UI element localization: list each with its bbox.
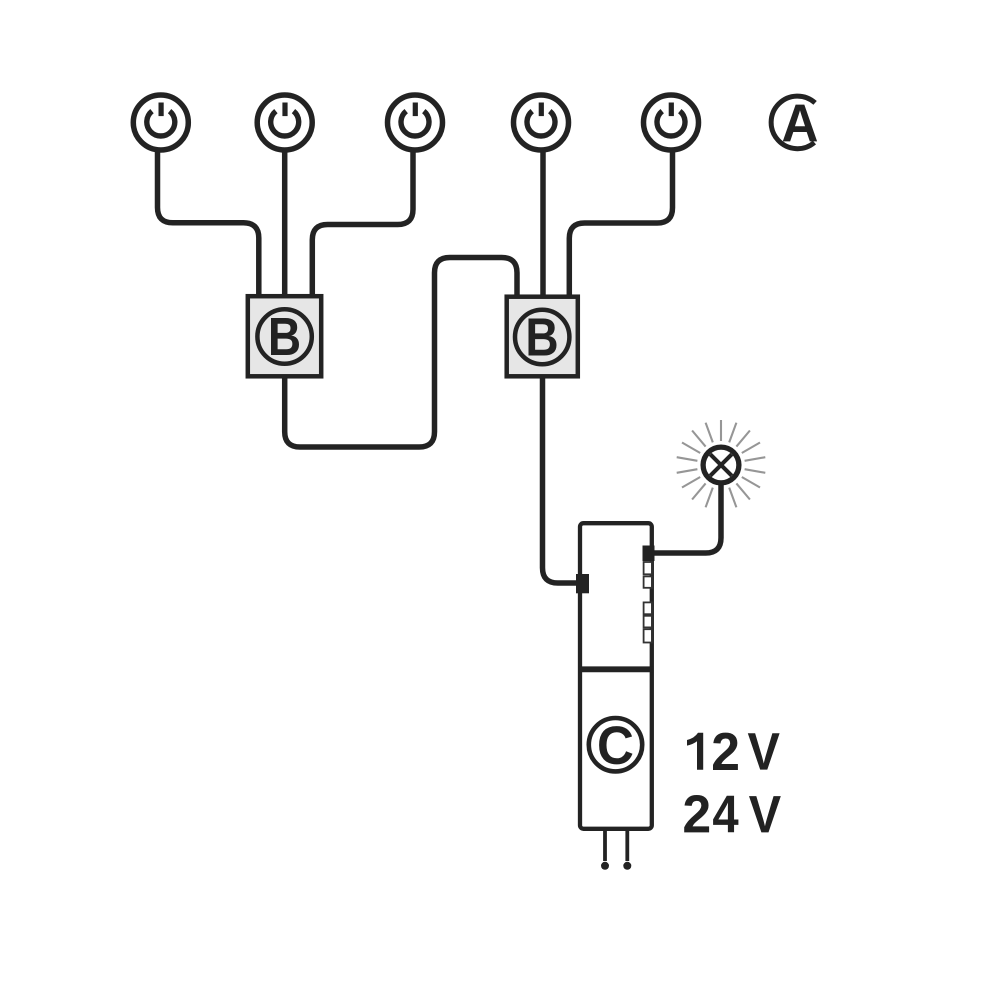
DIP switch 5 xyxy=(644,629,652,642)
wire from button S2 to box B1 center input xyxy=(282,150,288,297)
wire from button S4 to box B2 center input xyxy=(540,150,546,297)
push button S2 xyxy=(257,95,312,150)
lamp L1 bulb circle with X xyxy=(703,447,739,483)
wire from button S3 to box B1 right input xyxy=(312,150,413,297)
DIP switch 4 xyxy=(644,616,652,628)
distribution box B2 xyxy=(507,297,578,377)
wire from controller C output terminal to lamp xyxy=(650,480,721,553)
push button S4 xyxy=(514,95,569,150)
value label 12 V xyxy=(687,733,780,770)
DIP switch 1 xyxy=(644,562,652,574)
label A circle xyxy=(771,96,817,149)
label C circle xyxy=(589,718,642,771)
controller C input terminal (left, black) xyxy=(576,574,589,593)
wire from button S5 to box B2 right input xyxy=(569,150,672,297)
lamp L1 light rays xyxy=(677,420,766,507)
push button S1 xyxy=(133,95,188,150)
supply pin 2 xyxy=(623,830,631,870)
wire from box B1 output to box B2 left input xyxy=(285,258,517,448)
value label 24 V xyxy=(684,795,781,832)
controller C body xyxy=(580,523,652,829)
DIP switch 3 xyxy=(644,602,652,614)
controller C output terminal (right, black) xyxy=(643,546,655,562)
DIP switch 2 xyxy=(644,576,652,587)
controller C section divider xyxy=(579,666,654,672)
push button S3 xyxy=(388,95,443,150)
push button S5 xyxy=(644,95,699,150)
wire from box B2 output to controller C input terminal xyxy=(543,374,581,583)
distribution box B1 xyxy=(248,296,321,376)
supply pin 1 xyxy=(601,830,609,870)
wire from button S1 to box B1 left input xyxy=(158,150,259,297)
